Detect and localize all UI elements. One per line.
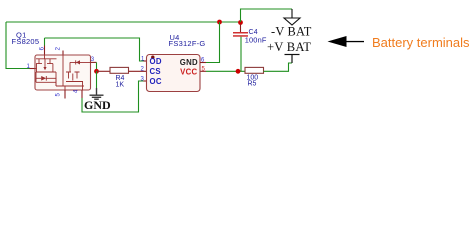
node junction dot at top rail and C4 (238, 20, 243, 25)
node junction dot at top rail to U4 pin6 (217, 20, 222, 25)
op-amp U4 FS312F-G box (147, 55, 201, 92)
transistor Q1 right MOSFET internals (56, 55, 91, 90)
svg-text:1K: 1K (116, 82, 125, 89)
svg-text:GND: GND (84, 98, 111, 112)
svg-text:GND: GND (180, 58, 198, 67)
ground symbol (90, 88, 104, 99)
wire top rail from battery plus loop (6, 21, 241, 23)
resistor R5 (245, 67, 264, 73)
resistor R4 (110, 67, 129, 73)
svg-text:3: 3 (141, 77, 145, 83)
wire gate rail to U4 pin 1 (45, 38, 144, 61)
label R4 value (116, 75, 125, 89)
net flag -V BAT (284, 9, 300, 25)
wire junction down to GND (96, 71, 98, 88)
wire R5 to +V BAT flag (264, 63, 293, 71)
pin Q1-1 stub (30, 68, 36, 70)
svg-text:R5: R5 (248, 81, 257, 88)
svg-text:OD: OD (150, 57, 162, 66)
pin U4-6 stub (200, 62, 206, 64)
wire Q1 pin6 drop (44, 38, 46, 46)
wire Q1 pin4 to OC (82, 81, 144, 112)
svg-text:CS: CS (150, 67, 161, 76)
svg-text:100nF: 100nF (245, 36, 267, 45)
node junction dot VCC C4 R5 (236, 69, 241, 74)
label C4 value (245, 29, 267, 45)
svg-text:VCC: VCC (180, 68, 197, 77)
svg-text:FS8205: FS8205 (12, 37, 40, 46)
diode body right Q1 (76, 60, 80, 64)
pin Q1-2 stub (62, 51, 64, 56)
wire Q1 pin3 drop to junction (96, 62, 98, 71)
annotation arrow battery terminals (328, 36, 365, 47)
svg-text:2: 2 (56, 46, 62, 50)
svg-text:1: 1 (141, 57, 145, 63)
pin Q1-6 stub (44, 46, 46, 56)
svg-text:Battery terminals: Battery terminals (372, 35, 470, 50)
svg-text:OC: OC (150, 77, 162, 86)
wire riser from top rail to U4 pin 6 (206, 22, 220, 63)
wire U4 pin 5 to R5 (200, 70, 245, 72)
wire left rail down to Q1 pin 1 (6, 22, 30, 69)
diode body left Q1 (41, 76, 46, 81)
label R5 value (247, 75, 259, 88)
capacitor C4 (233, 25, 248, 72)
mosfet arrow left Q1 (43, 67, 46, 70)
node junction dot drain sense (94, 69, 99, 74)
pin Q1-5 stub (64, 90, 66, 99)
net flag +V BAT (285, 55, 300, 64)
svg-text:-V BAT: -V BAT (271, 25, 312, 39)
pin Q1-3 stub (91, 61, 97, 63)
transistor Q1 left MOSFET internals (35, 55, 57, 86)
wire R4 to U4 pin 2 (129, 70, 147, 72)
svg-text:5: 5 (56, 93, 62, 97)
transistor Q1 package box FS8205 (35, 55, 91, 90)
pin Q1-4 stub (81, 90, 83, 98)
pin U4-3 stub (144, 80, 147, 82)
svg-text:FS312F-G: FS312F-G (169, 39, 206, 48)
svg-text:+V BAT: +V BAT (267, 40, 311, 54)
wire junction to R4 (97, 70, 111, 72)
wire loop to -V BAT flag (241, 9, 293, 22)
pin U4-1 stub (144, 60, 147, 62)
pin 1 marker dot U4 (151, 56, 154, 59)
svg-text:1: 1 (27, 64, 31, 70)
